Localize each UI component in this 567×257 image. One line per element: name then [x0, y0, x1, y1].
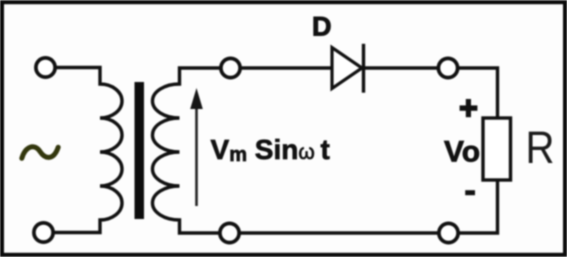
svg-text:R: R	[526, 122, 555, 173]
svg-text:Vm Sinω t: Vm Sinω t	[211, 134, 330, 166]
svg-text:Vo: Vo	[444, 136, 480, 169]
svg-text:D: D	[312, 12, 332, 42]
